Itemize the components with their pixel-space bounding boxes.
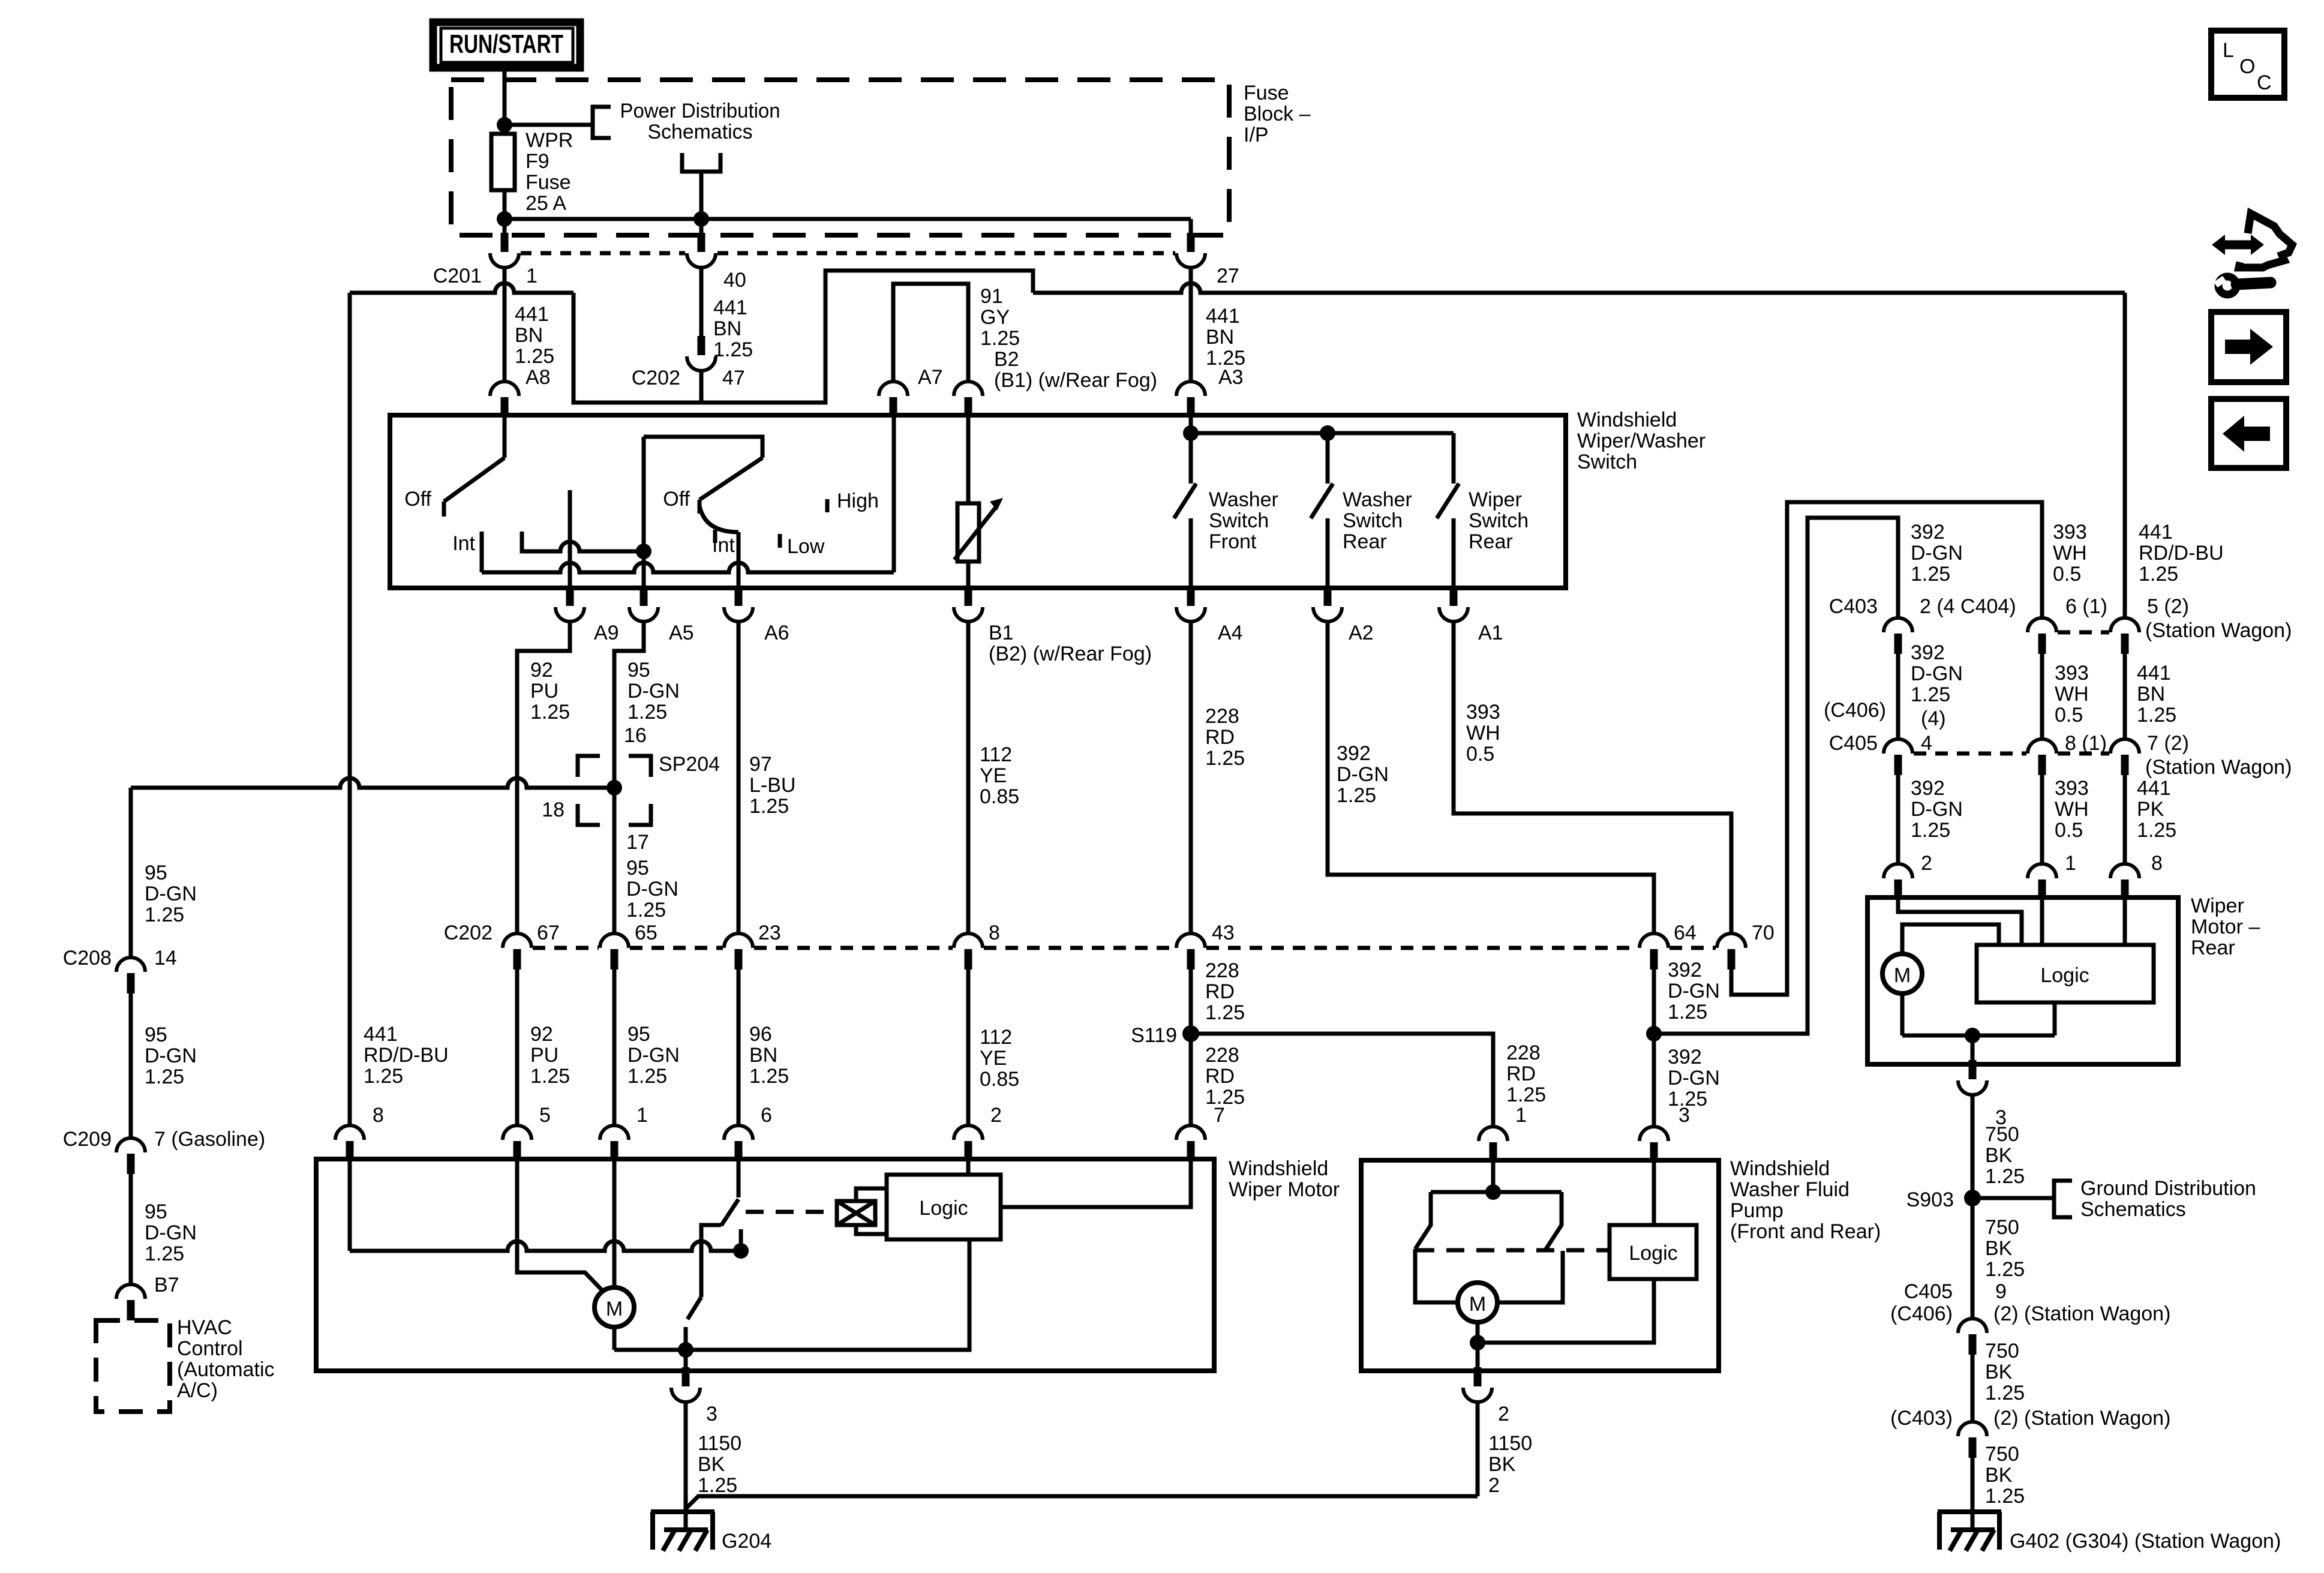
svg-text:HVAC: HVAC	[177, 1316, 232, 1339]
label pin 40	[723, 269, 746, 292]
wire A5 to C202-65	[614, 622, 644, 933]
connector A6	[724, 587, 753, 622]
svg-text:Washer: Washer	[1343, 488, 1412, 511]
wire motor pin1 internal	[612, 1159, 617, 1287]
label Windshield Wiper Motor	[1229, 1157, 1340, 1201]
wire fuse to bus	[503, 190, 507, 233]
svg-text:1.25: 1.25	[1337, 784, 1376, 807]
svg-text:2 (4 C404): 2 (4 C404)	[1920, 595, 2016, 618]
label B1	[989, 622, 1152, 665]
connector C202 pin 70	[1717, 933, 1746, 969]
label 4	[1921, 732, 1932, 755]
svg-text:1.25: 1.25	[145, 903, 184, 926]
svg-text:Rear: Rear	[2191, 936, 2235, 959]
svg-text:Off: Off	[404, 488, 431, 511]
svg-text:64: 64	[1674, 921, 1697, 944]
wire washer rail	[1191, 431, 1454, 436]
svg-text:14: 14	[154, 947, 177, 969]
wiper motor rear box	[1867, 897, 2178, 1064]
label C405 row	[1829, 732, 1878, 755]
connector motor pin 5	[503, 1125, 532, 1161]
label 95 D-GN 1.25 c3	[145, 1200, 197, 1265]
wire motor M to bottom bus	[612, 1327, 617, 1350]
svg-text:393: 393	[2055, 777, 2089, 800]
label pin 65	[635, 921, 657, 944]
svg-text:Wiper Motor: Wiper Motor	[1229, 1178, 1340, 1201]
svg-text:SP204: SP204	[659, 753, 720, 776]
svg-text:M: M	[1894, 964, 1911, 987]
label Off right	[663, 488, 690, 511]
svg-text:1.25: 1.25	[627, 1065, 667, 1088]
svg-text:D-GN: D-GN	[1911, 662, 1963, 685]
svg-text:65: 65	[635, 921, 657, 944]
svg-text:1.25: 1.25	[530, 1065, 570, 1088]
svg-text:2: 2	[990, 1104, 1002, 1127]
connector A9	[556, 587, 584, 622]
svg-text:High: High	[837, 490, 879, 512]
label 95 D-GN 1.25 c1	[145, 861, 197, 926]
label 228 RD 1.25 low	[1205, 1044, 1245, 1109]
svg-text:2: 2	[1488, 1474, 1500, 1497]
svg-text:(C406): (C406)	[1890, 1302, 1953, 1325]
label B7	[154, 1274, 179, 1296]
label 750 BK 1.25 s3	[1985, 1340, 2025, 1404]
svg-text:Washer Fluid: Washer Fluid	[1730, 1178, 1849, 1201]
svg-text:D-GN: D-GN	[627, 1044, 680, 1067]
label pin 23	[758, 921, 781, 944]
label Station Wagon C405	[2145, 756, 2292, 779]
label 7 (2)	[2147, 732, 2189, 755]
wire A6 internal	[737, 532, 741, 588]
switch blade right Off	[699, 458, 762, 500]
svg-text:Wiper: Wiper	[1469, 488, 1522, 511]
label 95 D-GN 1.25 upper	[627, 659, 680, 724]
connector C403 pin 5-2	[2110, 618, 2139, 654]
connector pump pin 1	[1479, 1127, 1508, 1163]
wire rheostat to B1	[966, 562, 971, 588]
svg-text:Switch: Switch	[1469, 509, 1529, 532]
svg-text:BN: BN	[515, 324, 543, 347]
svg-text:441: 441	[364, 1023, 398, 1046]
svg-text:1.25: 1.25	[145, 1242, 184, 1265]
contact tick Low	[778, 534, 782, 548]
wire rear 3 to S903	[1971, 1095, 1975, 1319]
svg-text:(C406): (C406)	[1824, 699, 1886, 722]
switch blade left Off	[444, 458, 505, 502]
connector motor pin 1	[600, 1125, 629, 1161]
svg-text:(2) (Station Wagon): (2) (Station Wagon)	[1993, 1407, 2170, 1430]
wire C405-7 to rear 8	[2123, 775, 2127, 864]
svg-text:1.25: 1.25	[2137, 704, 2176, 727]
label 92 PU 1.25 upper	[530, 659, 570, 724]
svg-text:393: 393	[1466, 701, 1500, 724]
node junction above fuse	[497, 117, 512, 133]
wire splice horizontal	[131, 778, 614, 788]
wire C209 to B7	[129, 1174, 133, 1284]
wire rear pin1 internal	[2040, 897, 2044, 945]
contact tick left mid	[520, 532, 524, 551]
wire motor pin8 internal	[348, 1159, 352, 1251]
wire pump pin3 to logic	[1652, 1160, 1656, 1225]
svg-text:95: 95	[145, 861, 167, 884]
svg-text:YE: YE	[980, 764, 1007, 787]
svg-text:D-GN: D-GN	[145, 1044, 197, 1067]
wire pump rail	[1431, 1190, 1562, 1194]
label S903	[1906, 1188, 1954, 1211]
label A4	[1218, 622, 1243, 644]
motor M front	[594, 1287, 634, 1327]
label rear pin 8	[2151, 852, 2163, 875]
svg-text:441: 441	[515, 303, 549, 326]
svg-text:F9: F9	[526, 150, 550, 173]
label 393 WH 0.5 top right	[2053, 521, 2087, 586]
wire C405-4 to rear 2	[1896, 775, 1900, 864]
label 441 BN 1.25 (40)	[713, 296, 753, 361]
svg-text:5: 5	[539, 1104, 551, 1127]
connector A2	[1313, 587, 1342, 622]
ground G204	[651, 1512, 714, 1551]
label 228 RD 1.25 upper	[1205, 705, 1245, 770]
windshield wiper/washer switch box	[390, 415, 1566, 588]
svg-text:RUN/START: RUN/START	[449, 29, 563, 59]
wire motor bottom bus	[614, 1239, 969, 1350]
wire bus to C201-1	[503, 219, 507, 238]
wire bus to C201-40	[699, 219, 704, 238]
svg-text:228: 228	[1506, 1041, 1541, 1064]
pump switch left	[1415, 1192, 1458, 1302]
off-page bracket under Power Distribution text	[682, 153, 720, 219]
svg-text:1.25: 1.25	[627, 701, 667, 724]
C403 row dashes	[2058, 631, 2109, 635]
svg-text:D-GN: D-GN	[1911, 542, 1963, 565]
label 441 BN 1.25 A8	[515, 303, 554, 389]
label SP204	[659, 753, 720, 776]
wire C208 to C209	[129, 993, 133, 1138]
label Wiper Motor - Rear	[2191, 894, 2260, 959]
svg-text:1150: 1150	[1488, 1432, 1532, 1455]
svg-text:1.25: 1.25	[1911, 683, 1950, 706]
label Station Wagon C403	[2145, 619, 2292, 642]
label A6	[764, 622, 789, 644]
label 92 PU 1.25 lower	[530, 1023, 570, 1088]
label pin 43	[1212, 921, 1235, 944]
label 392 D-GN 1.25 mid right	[1911, 641, 1963, 706]
svg-text:392: 392	[1668, 959, 1702, 981]
svg-text:WH: WH	[2053, 542, 2087, 565]
connector rear motor pin 1	[2028, 864, 2056, 900]
ground G402	[1938, 1512, 2001, 1551]
svg-text:BK: BK	[698, 1453, 725, 1476]
prev page arrow box	[2211, 399, 2286, 468]
contact tick Off right	[698, 500, 702, 514]
wire rear pin8 internal	[2123, 897, 2127, 945]
svg-text:1.25: 1.25	[749, 795, 789, 818]
svg-text:BK: BK	[1985, 1464, 2013, 1487]
svg-text:BN: BN	[749, 1044, 777, 1067]
svg-text:95: 95	[627, 1023, 650, 1046]
wire A1 to C202-70	[1454, 622, 1731, 933]
connector rear motor pin 2	[1884, 864, 1912, 900]
label 750 BK 1.25 s1	[1985, 1123, 2025, 1188]
svg-text:18: 18	[542, 798, 565, 821]
label 393 WH 0.5 col A1	[1466, 701, 1500, 766]
contact tick High	[825, 499, 830, 512]
svg-text:(4): (4)	[1921, 707, 1946, 730]
label pin 70	[1752, 921, 1774, 944]
svg-text:392: 392	[1911, 521, 1945, 544]
label Fuse Block - I/P	[1244, 82, 1311, 146]
connector C405 pin 7-2	[2110, 739, 2139, 775]
wire switch top rail	[644, 437, 762, 458]
label 112 YE 0.85 upper	[980, 743, 1019, 808]
contact tick Int left	[480, 532, 484, 551]
svg-text:BK: BK	[1488, 1453, 1516, 1476]
svg-text:47: 47	[722, 367, 745, 389]
svg-text:Windshield: Windshield	[1730, 1157, 1830, 1180]
label 91 GY 1.25 B2	[980, 285, 1157, 392]
label motor pin 5	[539, 1104, 551, 1127]
label pump pin 3	[1679, 1104, 1690, 1127]
label 16	[624, 724, 647, 747]
label 18	[542, 798, 565, 821]
svg-text:(Station Wagon): (Station Wagon)	[2145, 619, 2292, 642]
svg-text:Wiper/Washer: Wiper/Washer	[1577, 430, 1706, 452]
svg-text:Block –: Block –	[1244, 103, 1311, 125]
svg-text:(C403): (C403)	[1890, 1407, 1953, 1430]
svg-text:8: 8	[373, 1104, 384, 1127]
connector B1	[954, 587, 983, 622]
svg-text:L-BU: L-BU	[749, 774, 795, 797]
wire S119 to motor 7	[1189, 1034, 1193, 1125]
label C202 lower	[444, 921, 493, 944]
wire 392 loop to rear C403-2	[1654, 518, 1898, 1034]
node pump rail junction	[1485, 1184, 1501, 1200]
wire left int bus	[522, 532, 644, 551]
svg-text:1.25: 1.25	[1205, 1001, 1245, 1024]
connector C202 pin 8	[954, 933, 983, 969]
svg-text:RD: RD	[1205, 1065, 1235, 1088]
wire washer front to A4	[1189, 518, 1193, 588]
node washer rail junction A2	[1320, 425, 1335, 441]
label pin 64	[1674, 921, 1697, 944]
windshield wiper motor box	[316, 1159, 1214, 1371]
connector C202 pin 23	[724, 933, 753, 969]
label C405 9	[1904, 1280, 2007, 1303]
wire C405-8 to rear 1	[2040, 775, 2044, 864]
connector motor pin 2	[954, 1125, 983, 1161]
label Off left	[404, 488, 431, 511]
label G204	[722, 1530, 771, 1553]
label motor pin 3	[706, 1403, 717, 1425]
label A7	[918, 366, 943, 389]
connector C405 pin 9	[1958, 1319, 1987, 1355]
svg-text:C403: C403	[1829, 595, 1878, 618]
connector C403 pin 2sw	[1958, 1422, 1987, 1458]
off-page bracket power distribution	[593, 107, 611, 138]
svg-text:2: 2	[1498, 1403, 1509, 1425]
wire int rail to A7	[482, 551, 894, 572]
svg-text:1.25: 1.25	[2139, 563, 2178, 586]
label pin 27	[1217, 265, 1239, 287]
wire motor 3 to ground	[684, 1402, 688, 1531]
svg-text:1.25: 1.25	[749, 1065, 789, 1088]
wire 91 GY loop A7 to B2	[893, 284, 968, 382]
connector C209 pin 7	[116, 1138, 145, 1174]
svg-text:(Automatic: (Automatic	[177, 1358, 275, 1381]
logic box front motor	[887, 1175, 1001, 1239]
svg-text:Fuse: Fuse	[526, 171, 571, 194]
label High	[837, 490, 879, 512]
svg-text:393: 393	[2055, 662, 2089, 685]
wire S119 branch to pump 1	[1191, 1034, 1493, 1127]
wire pump pin2 branch	[1476, 1343, 1480, 1372]
wire C208 riser	[129, 788, 133, 957]
label motor pin 7	[1214, 1104, 1225, 1127]
label 8 (1)	[2065, 732, 2107, 755]
wire pump pin1 internal	[1491, 1160, 1496, 1192]
label 96 BN 1.25	[749, 1023, 789, 1088]
svg-text:(B2) (w/Rear Fog): (B2) (w/Rear Fog)	[989, 643, 1152, 665]
svg-text:27: 27	[1217, 265, 1239, 287]
svg-text:228: 228	[1205, 705, 1239, 728]
connector C201 pin 1	[490, 233, 519, 268]
svg-text:WH: WH	[1466, 722, 1500, 745]
label 750 BK 1.25 s2	[1985, 1216, 2025, 1281]
svg-text:(Station Wagon): (Station Wagon)	[2145, 756, 2292, 779]
svg-text:112: 112	[980, 743, 1012, 766]
svg-text:1.25: 1.25	[515, 345, 554, 368]
svg-text:1.25: 1.25	[1506, 1083, 1546, 1106]
wire left riser 441 RD/D-BU	[348, 293, 352, 1125]
svg-text:PU: PU	[530, 1044, 559, 1067]
wire C403-5 to C405-7	[2123, 654, 2127, 739]
svg-text:B7: B7	[154, 1274, 179, 1296]
wire rear bottom bus	[1902, 1034, 2055, 1038]
svg-text:O: O	[2239, 55, 2255, 78]
next page arrow box	[2211, 312, 2286, 382]
svg-text:Pump: Pump	[1730, 1199, 1783, 1222]
wire RUN/START to fuse	[503, 68, 507, 134]
svg-text:95: 95	[145, 1200, 167, 1223]
label Wiper Switch Rear	[1469, 488, 1529, 553]
label C209 7	[63, 1128, 265, 1151]
park switch lower contact	[684, 1327, 688, 1350]
svg-text:0.5: 0.5	[2055, 819, 2083, 842]
svg-text:0.85: 0.85	[980, 1068, 1019, 1091]
label Windshield Washer Fluid Pump	[1730, 1157, 1881, 1243]
wire C202-67 to motor 5	[515, 969, 520, 1125]
svg-text:C202: C202	[444, 921, 493, 944]
svg-text:97: 97	[749, 753, 772, 776]
svg-text:92: 92	[530, 659, 553, 682]
label pin 8	[989, 921, 1000, 944]
svg-text:16: 16	[624, 724, 647, 747]
svg-text:392: 392	[1668, 1046, 1702, 1068]
connector C208 pin 14	[116, 957, 145, 993]
wire C201-40 to C202-47	[699, 268, 704, 336]
svg-text:Wiper: Wiper	[2191, 894, 2244, 917]
connector A4	[1176, 587, 1205, 622]
connector pump pin 2	[1463, 1367, 1492, 1402]
label A1	[1478, 622, 1503, 644]
connector C405 pin 8-1	[2028, 739, 2056, 775]
wire B1 to C202-8	[966, 622, 971, 933]
label A5	[669, 622, 694, 644]
park switch link	[701, 1225, 721, 1297]
svg-text:C208: C208	[63, 947, 112, 969]
svg-text:1150: 1150	[698, 1432, 741, 1455]
svg-text:1.25: 1.25	[530, 701, 570, 724]
svg-text:C202: C202	[632, 367, 680, 389]
svg-text:1.25: 1.25	[364, 1065, 403, 1088]
svg-text:Off: Off	[663, 488, 690, 511]
label 393 WH 0.5 low right	[2055, 777, 2089, 842]
label rear pin 2	[1921, 852, 1932, 875]
svg-text:392: 392	[1911, 777, 1945, 800]
label C406	[1824, 699, 1886, 722]
node power distribution drop junction	[693, 211, 709, 227]
svg-text:A4: A4	[1218, 622, 1243, 644]
label 5 (2)	[2147, 595, 2189, 618]
label C406 station	[1890, 1302, 2170, 1325]
node splice S903	[1964, 1190, 1981, 1206]
svg-text:96: 96	[749, 1023, 772, 1046]
svg-text:1.25: 1.25	[145, 1065, 184, 1088]
label motor pin 2	[990, 1104, 1002, 1127]
svg-text:M: M	[606, 1298, 623, 1320]
svg-text:6 (1): 6 (1)	[2065, 595, 2107, 618]
svg-text:0.5: 0.5	[2055, 704, 2083, 727]
node rear bottom junction	[1965, 1028, 1980, 1043]
svg-text:G204: G204	[722, 1530, 771, 1553]
svg-text:40: 40	[723, 269, 746, 292]
label 441 RD/D-BU 1.25 right	[2139, 521, 2224, 586]
svg-text:Schematics: Schematics	[2080, 1198, 2186, 1221]
svg-text:C: C	[2257, 71, 2272, 94]
svg-text:A1: A1	[1478, 622, 1503, 644]
wire motor pin5 internal	[517, 1159, 602, 1290]
label A9	[594, 622, 619, 644]
label 97 L-BU 1.25	[749, 753, 795, 818]
svg-text:441: 441	[1206, 305, 1240, 328]
svg-text:8: 8	[2151, 852, 2163, 875]
label 2 (4 C404)	[1920, 595, 2016, 618]
wire A7 internal	[892, 415, 896, 572]
svg-text:RD/D-BU: RD/D-BU	[2139, 542, 2224, 565]
label rear pin 3	[1995, 1106, 2007, 1129]
svg-text:A3: A3	[1218, 366, 1244, 389]
svg-text:441: 441	[713, 296, 747, 319]
node pump bottom junction	[1470, 1335, 1485, 1350]
wire pump bottom bus	[1478, 1279, 1654, 1343]
svg-text:Rear: Rear	[1469, 530, 1513, 553]
wire C202-70 loop to rear 6-1	[1731, 502, 2042, 995]
connector A3	[1176, 382, 1205, 418]
svg-text:1.25: 1.25	[2137, 819, 2176, 842]
label 392 D-GN 1.25 below junction	[1668, 1046, 1720, 1110]
switch blade washer front	[1174, 484, 1196, 518]
wire A2 to C202-64	[1328, 622, 1654, 933]
switch blade washer rear	[1311, 484, 1333, 518]
rheostat variable resistor	[954, 498, 1003, 562]
svg-text:BN: BN	[2137, 683, 2165, 706]
wire C202-65 to motor 1	[612, 969, 617, 1125]
C201 dotted connector row line	[521, 251, 685, 256]
svg-text:67: 67	[537, 921, 560, 944]
svg-text:441: 441	[2137, 662, 2171, 685]
svg-text:RD: RD	[1506, 1062, 1536, 1085]
connector C202 pin 43	[1176, 933, 1205, 969]
